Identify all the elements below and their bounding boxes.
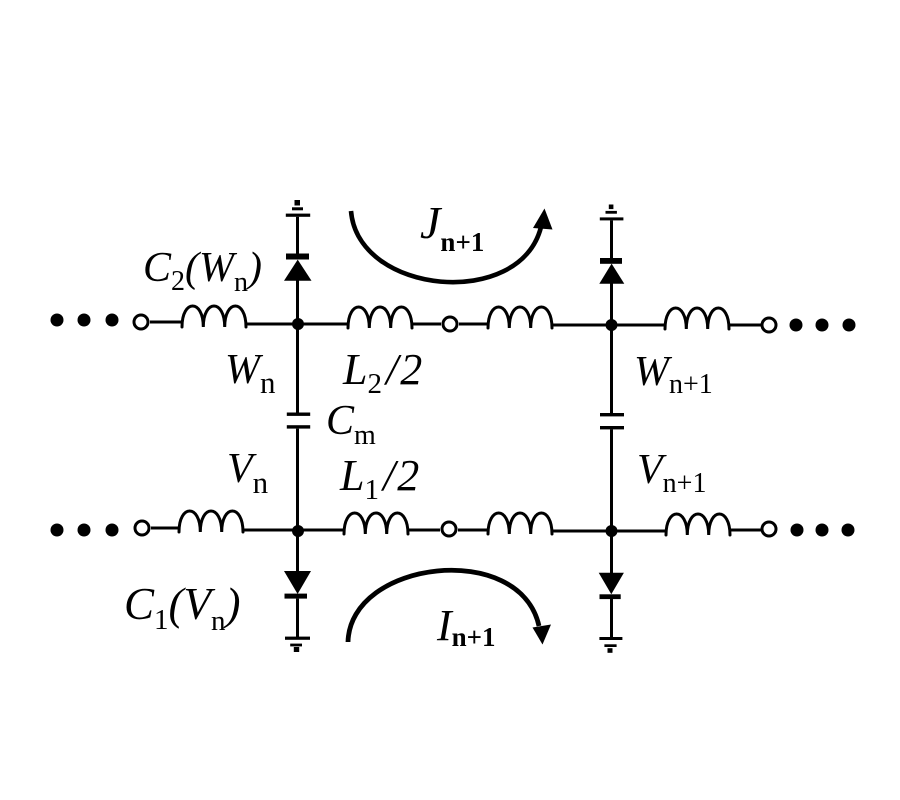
node terminal circle top-left [134, 315, 148, 329]
ground (top of right branch, inverted) [600, 205, 624, 221]
node Vn junction (bottom line, left cell) [292, 525, 304, 537]
capacitor Cm (right cell) bottom plate [600, 426, 624, 429]
wire [610, 284, 613, 326]
wire [296, 429, 299, 531]
wire [243, 529, 298, 532]
wire [729, 324, 761, 327]
capacitor Cm (left cell) top plate [287, 413, 310, 416]
inductor L1/2 bottom segment 4 [666, 514, 730, 535]
diode C2(Wn) varactor left, cathode bar [286, 254, 309, 260]
node ellipsis dots top-left [51, 314, 119, 327]
wire [296, 599, 299, 637]
node terminal circle bottom-middle [442, 522, 456, 536]
ground (top of left branch, inverted) [286, 200, 310, 217]
wire [610, 220, 613, 258]
loop current arrow In+1 (arrowhead) [533, 625, 552, 645]
inductor L1/2 bottom segment 1 [179, 511, 243, 532]
wire [246, 323, 298, 326]
node terminal circle top-middle [443, 317, 457, 331]
wire [552, 530, 612, 533]
wire [296, 217, 299, 255]
inductor L2/2 top segment 2 [348, 307, 412, 328]
diode C2(Wn) varactor left, triangle [284, 260, 312, 281]
ground (bottom of left branch) [285, 637, 310, 652]
diode C1(Vn+1) varactor right, triangle [599, 573, 624, 595]
wire [610, 325, 613, 413]
node ellipsis dots bottom-left [51, 524, 119, 537]
capacitor Cm (right cell) top plate [600, 413, 624, 416]
loop current arrow In+1 (arc) [348, 570, 539, 642]
wire [610, 429, 613, 531]
diode C1(Vn) varactor left, anode bar [285, 594, 308, 599]
inductor L2/2 top segment 1 [182, 306, 246, 327]
node terminal circle bottom-right [762, 522, 776, 536]
node terminal circle top-right [762, 318, 776, 332]
node Wn+1 junction (top line, right cell) [606, 319, 618, 331]
capacitor Cm (left cell) bottom plate [287, 425, 310, 428]
wire [730, 529, 761, 532]
wire [412, 323, 441, 326]
diode C2(Wn+1) varactor right, triangle [599, 264, 624, 284]
ground (bottom of right branch) [599, 637, 622, 653]
wire [296, 324, 299, 413]
inductor L1/2 bottom segment 2 [344, 513, 408, 534]
wire [612, 530, 666, 533]
wire [298, 323, 348, 326]
node Wn junction (top line, left cell) [292, 318, 304, 330]
diode C2(Wn+1) varactor right, cathode bar [600, 258, 622, 264]
wire [150, 321, 182, 324]
inductor L2/2 top segment 4 [665, 308, 729, 329]
wire [552, 324, 612, 327]
wire [610, 531, 613, 573]
inductor L2/2 top segment 3 [488, 307, 552, 328]
node ellipsis dots bottom-right [791, 524, 855, 537]
node Vn+1 junction (bottom line, right cell) [606, 525, 618, 537]
wire [408, 529, 440, 532]
wire [151, 527, 179, 530]
wire [298, 529, 344, 532]
diode C1(Vn+1) varactor right, anode bar [600, 594, 621, 599]
wire [459, 323, 488, 326]
loop current arrow Jn+1 (arc) [351, 211, 541, 282]
diode C1(Vn) varactor left, triangle [284, 571, 311, 594]
wire [610, 599, 613, 637]
loop current arrow Jn+1 (arrowhead) [533, 209, 553, 230]
node terminal circle bottom-left [135, 521, 149, 535]
node ellipsis dots top-right [790, 319, 856, 332]
wire [458, 529, 488, 532]
inductor L1/2 bottom segment 3 [488, 513, 552, 534]
wire [296, 280, 299, 324]
wire [296, 531, 299, 572]
wire [612, 324, 665, 327]
